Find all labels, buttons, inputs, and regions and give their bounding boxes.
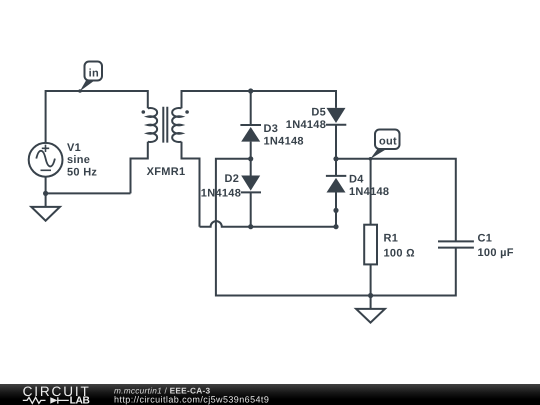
- wire: mid node from D3/D2 junction left, down x=215.9, bottom ground net across to C1: [216, 159, 456, 296]
- R1 labels: [384, 233, 415, 260]
- primary winding: [148, 108, 157, 142]
- C1 labels: [478, 233, 514, 259]
- diode D4 (pointing up): [326, 176, 346, 193]
- svg-text:D4: D4: [349, 173, 364, 185]
- diode D3 (pointing up): [240, 125, 261, 142]
- junction: D2 bottom node: [248, 224, 253, 229]
- svg-text:sine: sine: [67, 154, 90, 166]
- junction: V1 ground node: [43, 191, 48, 196]
- wire: ground net bottom-left horizontal: [46, 192, 131, 194]
- svg-text:1N4148: 1N4148: [349, 186, 389, 198]
- wire: D2 bottom to y=227 net: [250, 192, 252, 226]
- svg-text:in: in: [89, 67, 99, 79]
- wire: out node to D4 top: [335, 159, 337, 176]
- wire: secondary top terminal across to D5 column: [182, 91, 337, 108]
- svg-text:LAB: LAB: [70, 396, 91, 405]
- svg-text:XFMR1: XFMR1: [147, 166, 186, 178]
- svg-text:50 Hz: 50 Hz: [67, 167, 97, 179]
- svg-text:D2: D2: [225, 173, 240, 185]
- resistor R1: [364, 225, 377, 265]
- V1 value labels: [67, 142, 97, 179]
- svg-text:100 Ω: 100 Ω: [384, 247, 415, 259]
- node label callout: in: [78, 62, 102, 93]
- svg-text:D3: D3: [264, 123, 279, 135]
- ground (R1/C1 bottom): [356, 296, 385, 323]
- wire: mid junction to D2 top: [250, 159, 252, 176]
- D5 labels: [286, 107, 326, 131]
- wire: out net horizontal to C1 and down: [336, 159, 456, 242]
- logo doodle: resistor + diode: [23, 397, 69, 403]
- ground (V1): [31, 193, 60, 220]
- D2 labels: [201, 173, 241, 200]
- wire: net in, V1 top up and across to primary: [46, 91, 148, 143]
- D4 labels: [349, 173, 389, 197]
- wire: secondary bottom jog down: [182, 142, 200, 227]
- footer bar: [0, 384, 540, 405]
- junction: D4 bottom node: [333, 224, 338, 229]
- core lines: [163, 107, 167, 143]
- junction: D3 top node: [248, 88, 253, 93]
- capacitor C1: [438, 241, 474, 247]
- transformer XFMR1: [148, 107, 182, 143]
- svg-text:C1: C1: [478, 233, 493, 245]
- junction: D4 terminal node: [333, 208, 338, 213]
- diode D5 (pointing down): [326, 108, 346, 125]
- wire: V1 bottom to ground junction: [45, 177, 47, 194]
- wire: horizontal y=227 with hop over vertical, to D2 and D4: [200, 221, 337, 227]
- wire: D5 bottom to out node: [335, 125, 337, 159]
- svg-text:out: out: [379, 136, 397, 148]
- D3 labels: [264, 123, 304, 148]
- wire: D3 column top: [250, 91, 252, 125]
- secondary winding: [172, 108, 181, 142]
- voltage source V1: [29, 143, 63, 177]
- junction: out node at D5/D4: [333, 156, 338, 161]
- svg-text:D5: D5: [311, 107, 326, 119]
- svg-text:R1: R1: [384, 233, 399, 245]
- svg-text:http://circuitlab.com/cj5w539n: http://circuitlab.com/cj5w539n654t9: [114, 394, 269, 404]
- wire: R1 bottom lead: [370, 264, 372, 295]
- svg-text:100 µF: 100 µF: [478, 247, 514, 259]
- node label callout: out: [369, 130, 400, 161]
- svg-text:1N4148: 1N4148: [201, 188, 241, 200]
- wire: D4 bottom to y=227 net: [335, 193, 337, 227]
- svg-text:1N4148: 1N4148: [286, 119, 326, 131]
- phase dot secondary: [185, 110, 189, 114]
- svg-text:V1: V1: [67, 142, 81, 154]
- wire: R1 top lead: [370, 159, 372, 225]
- phase dot primary: [142, 110, 146, 114]
- wire: D3 bottom to mid junction: [250, 142, 252, 159]
- wire: primary bottom jog: [131, 142, 148, 194]
- junction: R1 bottom ground node: [368, 293, 373, 298]
- svg-text:1N4148: 1N4148: [264, 136, 304, 148]
- diode D2 (pointing down): [241, 176, 261, 193]
- junction: D3/D2 mid node: [248, 156, 253, 161]
